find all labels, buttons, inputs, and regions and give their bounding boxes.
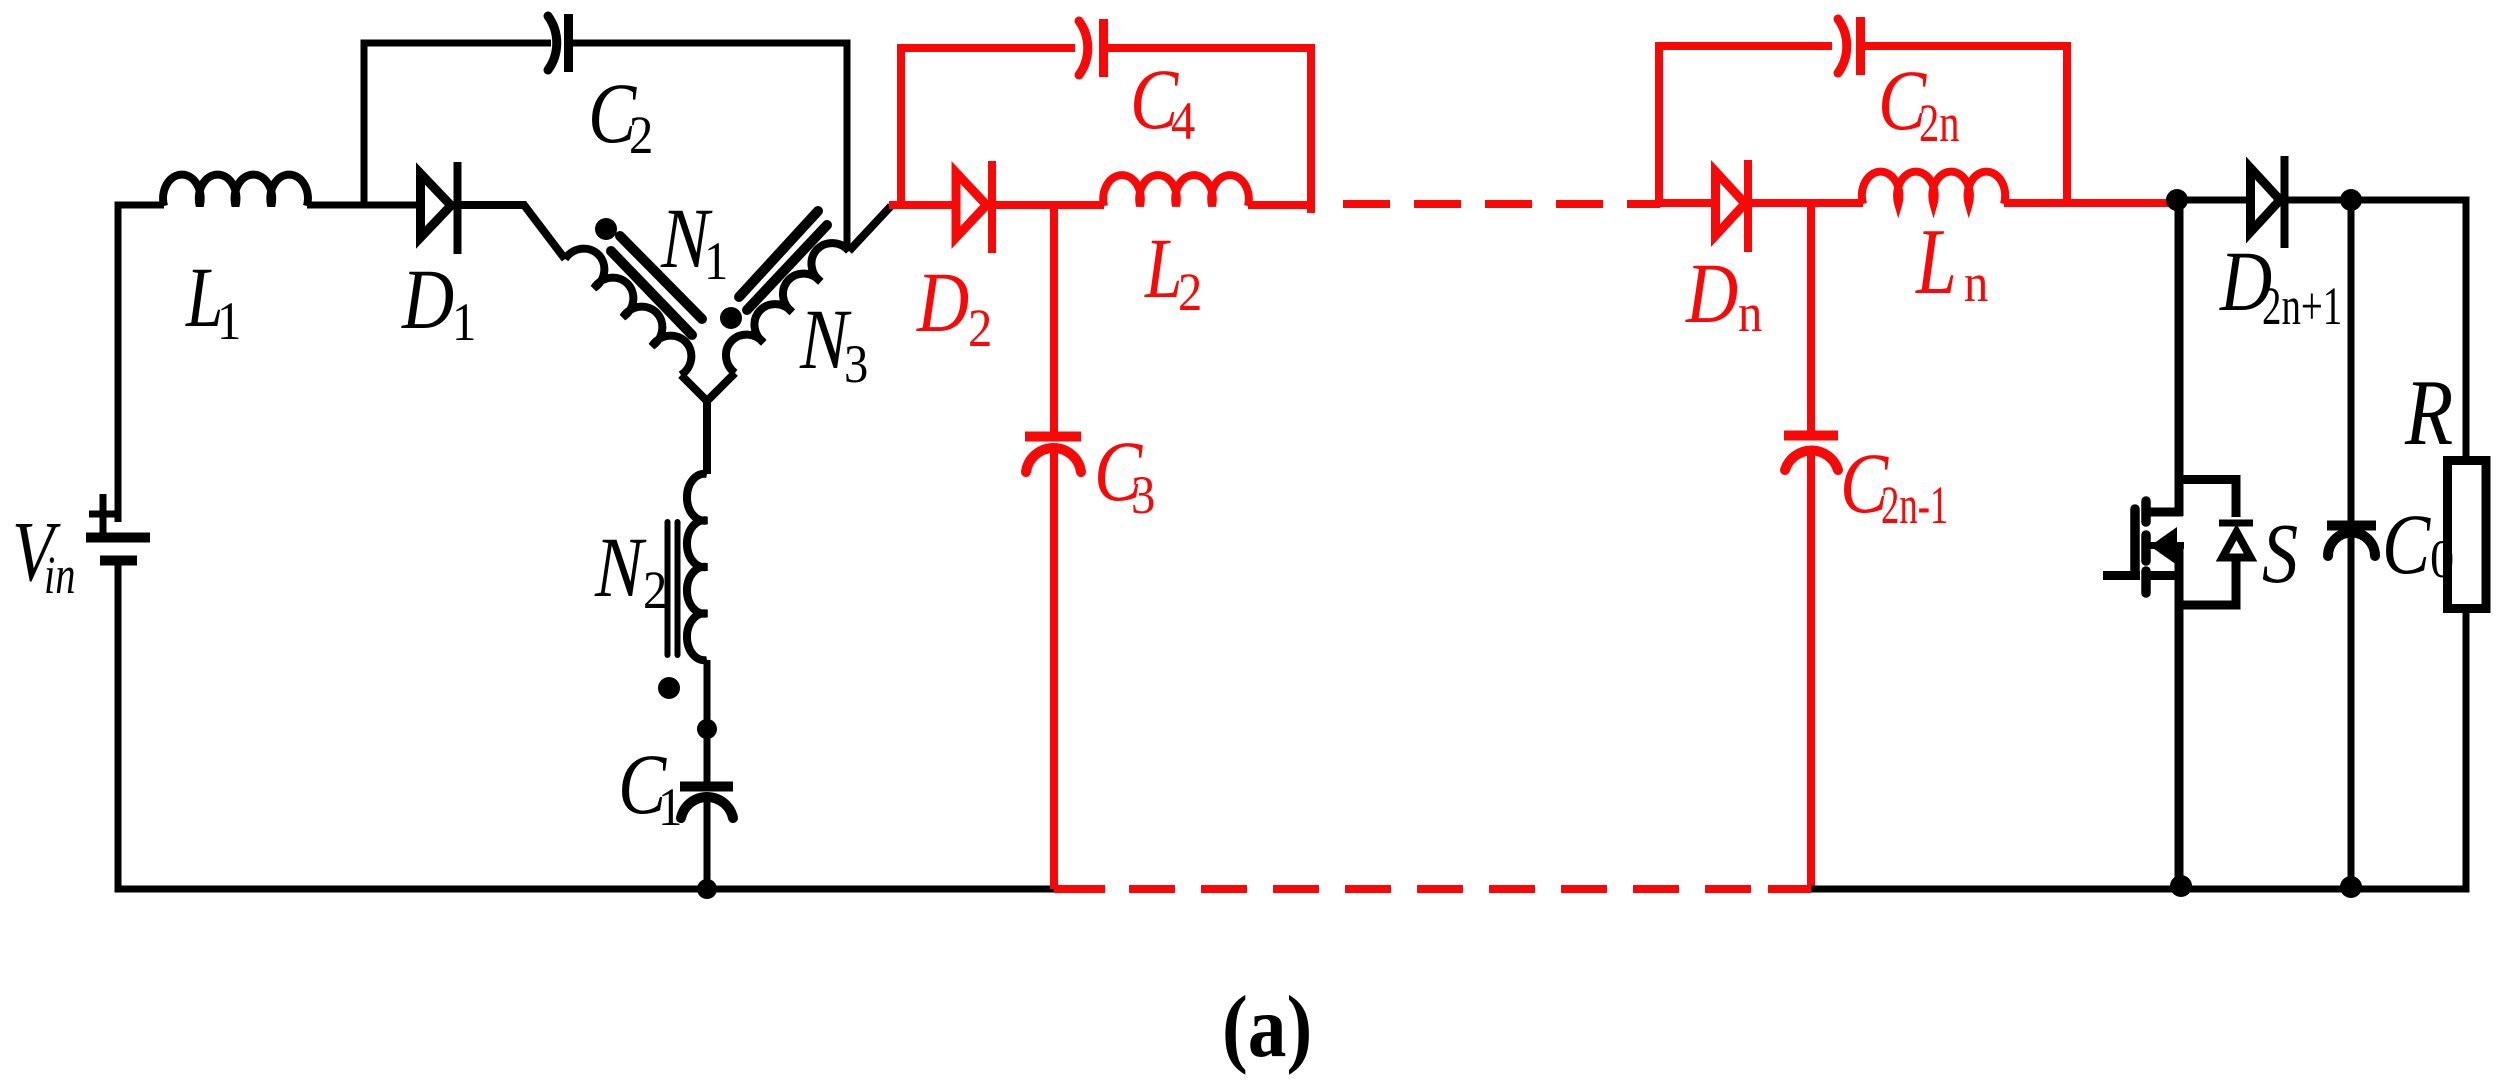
polarity dot N1	[595, 218, 617, 240]
winding N2 of coupled inductor	[687, 474, 707, 661]
svg-text:L: L	[1915, 210, 1957, 314]
capacitor C3	[1025, 432, 1081, 442]
svg-text:S: S	[2262, 506, 2298, 601]
MOSFET S : source connect	[2146, 571, 2184, 580]
svg-text:C: C	[2382, 497, 2431, 592]
svg-text:2: 2	[1178, 263, 1202, 323]
voltage source Vin battery symbol	[86, 494, 150, 561]
wire: input top horizontal left of L1	[118, 205, 164, 209]
core lines of N1	[611, 236, 702, 335]
svg-text:2: 2	[629, 106, 653, 166]
wire: from battery minus down to bottom rail	[115, 565, 122, 889]
MOSFET S : body arrow	[2150, 542, 2184, 549]
svg-text:n: n	[1738, 284, 1762, 344]
MOSFET S : source wire down	[2175, 546, 2184, 887]
svg-text:R: R	[2404, 361, 2453, 465]
junction dot bottom (switch branch)	[2170, 875, 2192, 897]
core lines of N3	[739, 211, 827, 310]
polarity dot N2	[658, 677, 680, 699]
svg-text:D: D	[1685, 246, 1738, 341]
wire: N1 end to Y-center	[681, 375, 707, 474]
svg-text:4: 4	[1171, 92, 1195, 152]
MOSFET S : body-diode loop top	[2179, 480, 2236, 518]
wire: N3 top diagonal to red cell	[849, 206, 891, 251]
svg-text:0: 0	[2430, 530, 2454, 590]
capacitor C2 left leg wire	[364, 43, 551, 205]
wire: red main rail start	[889, 201, 952, 209]
svg-text:2: 2	[643, 561, 667, 621]
svg-text:L: L	[1144, 220, 1182, 316]
polarity dot N3/N1 center	[720, 307, 742, 329]
svg-text:3: 3	[1131, 466, 1155, 526]
MOSFET S : body-diode loop bottom	[2179, 560, 2236, 605]
MOSFET S : gate lead	[2103, 571, 2140, 580]
wire: C2 top right and right leg down	[566, 43, 847, 250]
diode D2n+1	[2251, 156, 2285, 248]
capacitor C2	[548, 14, 569, 72]
wire: C4 loop left leg	[901, 48, 1075, 209]
diode Dn	[1716, 172, 1746, 236]
svg-text:D: D	[401, 252, 454, 347]
svg-text:1: 1	[658, 778, 682, 838]
capacitor C1	[680, 787, 733, 819]
wire: D2n+1 to output corner	[2285, 200, 2466, 456]
svg-text:1: 1	[704, 232, 728, 292]
svg-text:3: 3	[844, 335, 868, 395]
MOSFET S : channel bars	[2141, 501, 2151, 593]
svg-text:1: 1	[452, 293, 476, 353]
wire: top dashed red line	[1343, 200, 1660, 208]
wire: Dn cathode to Ln	[1750, 199, 1863, 207]
wire: C3 bottom vertical	[1050, 448, 1058, 889]
svg-text:n: n	[1964, 254, 1988, 314]
resistor R	[2448, 461, 2487, 609]
svg-text:2n+1: 2n+1	[2262, 277, 2342, 337]
capacitor C0	[2327, 526, 2376, 557]
svg-text:D: D	[916, 255, 969, 350]
wire: Y-center to N3 start	[707, 373, 735, 401]
wire: N2 bottom to C1	[704, 660, 711, 782]
wire: C1 to bottom rail	[704, 800, 711, 889]
wire: C2n-1 branch vertical	[1807, 203, 1815, 431]
core lines of N2	[668, 522, 678, 655]
svg-text:2: 2	[968, 299, 992, 359]
capacitor C2n-1	[1784, 431, 1838, 441]
wire: bottom red stub at C3	[1054, 885, 1105, 893]
winding N1 of coupled inductor	[565, 249, 691, 375]
junction dot bottom (C0 branch)	[2340, 876, 2362, 898]
svg-text:N: N	[594, 520, 647, 615]
inductor L1	[163, 175, 308, 206]
wire: R bottom to rail	[2463, 613, 2470, 893]
wire: C2n loop left leg	[1659, 46, 1832, 206]
wire: D1 cathode to bend	[459, 205, 565, 259]
wire: bottom red stub at C2n-1	[1768, 885, 1811, 893]
wire: output rail to D2n+1	[2177, 197, 2246, 204]
wire: left vertical from corner down to battery	[115, 205, 122, 522]
wire: D2 cathode to L2	[991, 201, 1104, 209]
wire: C2n-1 bottom vertical	[1807, 446, 1815, 889]
wire: Ln to output junction	[2004, 199, 2177, 207]
MOSFET S : drain wire	[2175, 200, 2184, 516]
svg-text:in: in	[44, 545, 76, 605]
junction node dot (C0 branch top)	[2340, 189, 2362, 211]
MOSFET S : drain connect	[2145, 508, 2183, 517]
wire: L2 to right leg	[1248, 201, 1311, 209]
wire: C3 branch vertical	[1050, 205, 1058, 432]
svg-text:(a): (a)	[1222, 977, 1312, 1075]
capacitor C2n	[1838, 19, 1847, 73]
svg-text:2n: 2n	[1919, 93, 1960, 153]
wire: C0 branch top vertical	[2348, 200, 2355, 521]
inductor L2	[1103, 175, 1249, 206]
wire: C4 loop top right and right leg	[1100, 48, 1311, 213]
wire: C2n loop top right and right leg	[1857, 46, 2067, 203]
wire: C0 bottom vertical	[2348, 534, 2355, 887]
winding N3 of coupled inductor	[726, 243, 849, 373]
junction node dot (switch branch top)	[2166, 189, 2188, 211]
diode D2	[956, 173, 987, 238]
junction dot above C1	[697, 719, 717, 739]
wire: red rail cell2 left	[1659, 199, 1711, 207]
wire: between L1 and D1	[307, 202, 420, 209]
MOSFET S : gate bar	[2130, 509, 2140, 570]
wire: bottom rail right (black)	[1811, 886, 2466, 893]
MOSFET S : body diode	[2219, 523, 2253, 558]
capacitor C4	[1079, 21, 1088, 75]
svg-text:2n-1: 2n-1	[1881, 475, 1948, 535]
junction dot bottom of N2 branch	[697, 879, 717, 899]
diode D1	[421, 162, 458, 254]
svg-text:1: 1	[217, 292, 241, 352]
wire: bottom rail left (black)	[115, 886, 1055, 893]
inductor Ln	[1862, 172, 2005, 204]
wire: bottom dashed red line	[1129, 885, 1768, 893]
